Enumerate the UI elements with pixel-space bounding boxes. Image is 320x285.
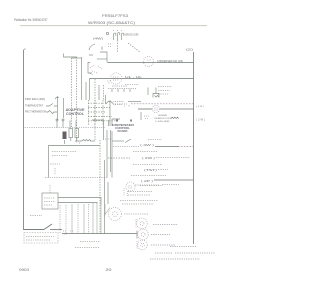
legend row 3 — [150, 258, 200, 260]
water valve label row 1 — [26, 236, 54, 238]
wire riser x104 — [104, 160, 106, 234]
ADC bracket corner — [112, 119, 120, 126]
wire condenser fan rung — [107, 62, 193, 64]
wire housing out 1 — [58, 198, 101, 206]
wire jog y141 — [112, 140, 124, 142]
icemaker label row 2 — [52, 155, 68, 157]
wire dashed riser x71 — [71, 58, 73, 127]
svg-text:NO: NO — [89, 54, 93, 57]
defrost heater circle — [152, 105, 159, 112]
wire door switch out — [128, 101, 141, 103]
wire ground lead dashed — [117, 40, 119, 52]
door switch label speckle — [114, 103, 128, 105]
wire dotted stub left — [54, 168, 56, 175]
wire stub above relay — [101, 47, 103, 51]
svg-text:FRS6LF7FS3: FRS6LF7FS3 — [102, 14, 128, 18]
wire row4 to bus — [154, 179, 194, 181]
legend row 1 — [170, 246, 196, 248]
ADC connector pin row 2 — [88, 107, 110, 109]
svg-text:SERVICE CORD: SERVICE CORD — [125, 34, 139, 37]
wire row1 to bus solid — [155, 146, 178, 148]
svg-text:(4W): (4W) — [196, 106, 204, 108]
wire dashed riser x103 — [103, 85, 105, 100]
faint label above row1 — [148, 139, 162, 141]
water fill inner mark — [129, 186, 133, 188]
condenser motor inner circle — [141, 243, 145, 247]
compressor run winding marks — [113, 77, 119, 80]
svg-text:(2): (2) — [186, 48, 193, 52]
defrost heater circle inner dot — [155, 108, 158, 110]
wire riser x81 — [81, 57, 83, 100]
icemaker outline box — [49, 146, 101, 178]
svg-text:(4W): (4W) — [93, 37, 103, 41]
wire ADC riser d — [109, 100, 111, 126]
svg-text:BOARD: BOARD — [118, 129, 129, 133]
compressor terminal marks left — [108, 81, 111, 83]
wire riser w5 — [88, 204, 90, 234]
dotted connector row y146 — [113, 146, 139, 148]
service cord strain marks — [108, 44, 112, 47]
svg-text:THERMOSTAT: THERMOSTAT — [25, 105, 44, 108]
dispenser housing label rows — [44, 198, 55, 205]
defrost heater resistor symbol — [171, 117, 179, 118]
wire riser x107 — [106, 130, 108, 178]
wire defrost heater rung left — [138, 108, 152, 110]
wire riser x100 dashed — [99, 140, 101, 233]
bottom label speckle row 2 — [75, 247, 100, 249]
heater resistor box 1 — [69, 129, 73, 138]
auger motor label — [124, 213, 148, 215]
wire right neutral bus — [193, 52, 195, 244]
wire defrost heater rung right — [160, 108, 194, 110]
svg-text:CONTROL: CONTROL — [66, 112, 85, 116]
wire mold heater rung — [75, 140, 82, 142]
wire cord diagonal dashed — [128, 43, 140, 52]
connector pin dash row mid — [108, 157, 130, 159]
wire riser x112 — [111, 131, 113, 178]
node left bus top tick — [24, 49, 26, 51]
wire below connector — [64, 140, 66, 144]
svg-text:UL - UL: UL - UL — [125, 76, 143, 79]
auger label row 2 — [122, 203, 154, 205]
condenser motor circle bottom — [138, 240, 148, 250]
wire auger diagonal — [104, 208, 110, 217]
thermostat switch symbol — [46, 104, 57, 107]
condenser fan inner marks — [148, 60, 152, 63]
condenser motor bracket — [136, 241, 138, 249]
refrigerator fan bracket — [136, 231, 138, 239]
connector block dark — [63, 132, 67, 140]
thermistor symbol — [46, 111, 57, 114]
wire row2 dotted to bus — [156, 157, 190, 159]
heater resistor box 2 — [75, 129, 79, 138]
lamp mark b — [130, 120, 132, 122]
wire dashed riser x76 — [76, 57, 78, 143]
dispenser label row 3 — [131, 175, 166, 177]
wire dotted bottom of icemaker — [45, 177, 107, 179]
svg-text:(2W): (2W) — [196, 119, 205, 122]
wire long dotted harness row — [24, 127, 106, 129]
wire dashed riser x95 — [94, 79, 96, 141]
svg-text:( 2W ): ( 2W ) — [142, 156, 155, 160]
auger motor inner circle — [113, 212, 118, 217]
water fill circle — [126, 182, 135, 191]
upper dispenser label row b — [158, 90, 170, 92]
freezer fan bracket — [135, 219, 137, 228]
capacitor verticals — [148, 88, 156, 96]
label row left small — [50, 163, 60, 165]
svg-text:FRZ FAN (4W): FRZ FAN (4W) — [25, 98, 45, 101]
freezer door switch stem — [105, 95, 107, 104]
wire riser w8 — [100, 205, 102, 234]
wire ADC riser a — [88, 100, 90, 126]
wire riser w3 — [77, 204, 79, 234]
water valve dashed box — [24, 233, 58, 244]
service cord prong 2 — [117, 33, 119, 40]
upper dispenser label rows right — [158, 86, 172, 88]
switch blade y140 — [125, 139, 131, 143]
svg-text:440W: 440W — [158, 115, 168, 117]
wire riser w0 — [59, 205, 61, 234]
terminal marks — [144, 116, 149, 119]
refrigerator fan label — [151, 234, 170, 236]
ADC connector pin row 5 — [88, 120, 117, 122]
svg-text:FRZ THERMISTOR: FRZ THERMISTOR — [25, 112, 46, 114]
water valve switch wire — [24, 229, 45, 231]
wire housing out 2 — [58, 203, 97, 205]
dispenser label row 4b — [162, 184, 180, 186]
compressor label row below — [112, 85, 128, 87]
wire riser x110 — [110, 130, 112, 172]
wire riser w4 — [83, 204, 85, 234]
wire freezer fan rung — [62, 233, 137, 235]
freezer fan label — [153, 224, 178, 226]
water valve switch out — [50, 229, 62, 231]
wire dashed low voltage run — [131, 103, 194, 105]
lamp mark a — [116, 120, 118, 122]
wire y58 jog — [72, 57, 82, 59]
wire riser w9 — [104, 204, 106, 215]
wire corner y120 — [92, 120, 104, 140]
wire timer feed corner — [64, 54, 78, 58]
header rule — [20, 25, 207, 27]
refrigerator fan motor circle — [138, 229, 149, 240]
wire riser w7 — [96, 204, 98, 234]
harness pin 3 — [69, 121, 71, 128]
ADC connector pin row 4 — [88, 115, 112, 117]
legend row 2 — [155, 252, 172, 254]
service cord prong 1 — [113, 33, 115, 40]
water fill bracket ticks — [124, 188, 128, 196]
svg-text:CONDENSER FAN (2W): CONDENSER FAN (2W) — [157, 60, 183, 63]
wire riser x57 — [57, 96, 59, 120]
wire compressor drop — [89, 79, 91, 101]
wire riser w1 — [65, 205, 67, 234]
wire riser w2 — [71, 204, 73, 234]
auger motor circle — [109, 208, 122, 221]
faint text above connector row — [125, 84, 139, 86]
prong terminal dots — [113, 30, 123, 32]
ADC connector pin row 1 — [88, 102, 103, 104]
svg-text:( 4W ): ( 4W ) — [140, 143, 154, 147]
water fill label right — [140, 185, 163, 187]
water label row b1 — [128, 191, 152, 193]
svg-text:L140-30F: L140-30F — [156, 121, 171, 123]
wire left line bus L1 — [24, 50, 45, 230]
wire dotted above housing — [49, 185, 51, 193]
defrost timer bracket — [88, 63, 92, 74]
svg-text:W/RS03 (SC-65&&TC): W/RS03 (SC-65&&TC) — [88, 21, 136, 25]
connector hooks under row — [112, 89, 130, 92]
wire riser x63 — [63, 98, 65, 118]
water label row b2 — [128, 194, 150, 196]
wire riser x86 — [85, 82, 87, 100]
wire riser x108 mid — [107, 182, 109, 204]
small arc left — [55, 97, 59, 99]
condenser motor label — [151, 244, 176, 246]
wire row1 to bus dashed — [178, 146, 194, 148]
wire mold heater rung right — [90, 140, 95, 142]
wire riser x99 — [98, 85, 100, 100]
harness pin 2 — [62, 119, 64, 121]
svg-text:20: 20 — [106, 268, 112, 272]
harness pin 4 — [75, 121, 77, 128]
svg-text:Publication No. 5995421757: Publication No. 5995421757 — [14, 17, 48, 22]
door switch label rows — [114, 102, 125, 105]
service cord plug terminal ring — [106, 32, 108, 34]
dispenser label row 4 — [135, 184, 160, 186]
compressor motor circle — [110, 73, 121, 84]
freezer fan motor circle top — [137, 218, 148, 229]
water valve switch blade — [44, 224, 52, 230]
harness pin 1 — [56, 119, 58, 121]
svg-text:DEFROST HTR: DEFROST HTR — [155, 118, 172, 120]
auger label row 1 — [120, 200, 158, 202]
node L1 entry wire — [100, 52, 107, 62]
service cord prong 3 — [121, 33, 123, 40]
wire stub left of board — [108, 120, 110, 126]
wire arc to timer — [89, 44, 95, 50]
svg-text:0903: 0903 — [19, 268, 29, 272]
wire riser w6 — [92, 203, 94, 234]
small label right rows — [158, 169, 168, 171]
freezer door switch bump — [106, 101, 113, 104]
condenser fan motor circle — [144, 57, 154, 67]
tiny label mid — [105, 138, 112, 140]
icemaker label row 1 — [52, 151, 77, 153]
ADC connector pin row 3 — [88, 111, 106, 113]
dispenser label row 1 — [133, 151, 158, 153]
freezer fan inner circle — [140, 222, 144, 226]
wire ADC riser c — [102, 100, 104, 126]
connector dotted row upper mid — [108, 88, 136, 90]
dispenser housing box — [42, 193, 58, 209]
refrigerator fan inner circle — [141, 233, 145, 237]
wire ADC riser b — [94, 100, 96, 126]
svg-text:LO: LO — [124, 106, 130, 108]
dispenser label row 2 — [133, 164, 162, 166]
wire stub with terminal — [140, 112, 142, 120]
defrost thermostat symbol — [153, 94, 159, 98]
bottom label speckle row — [80, 241, 100, 243]
wire timer top corner — [97, 58, 107, 60]
water valve label row 2 — [26, 239, 50, 241]
mold heater squiggle — [82, 140, 91, 142]
label under housing — [30, 215, 42, 217]
svg-text:(TST): (TST) — [144, 168, 157, 172]
defrost timer contact marks — [90, 65, 102, 75]
wire compressor rung — [90, 78, 194, 80]
svg-text:( 2P ): ( 2P ) — [141, 179, 153, 183]
upper dispenser label row c — [158, 93, 168, 95]
